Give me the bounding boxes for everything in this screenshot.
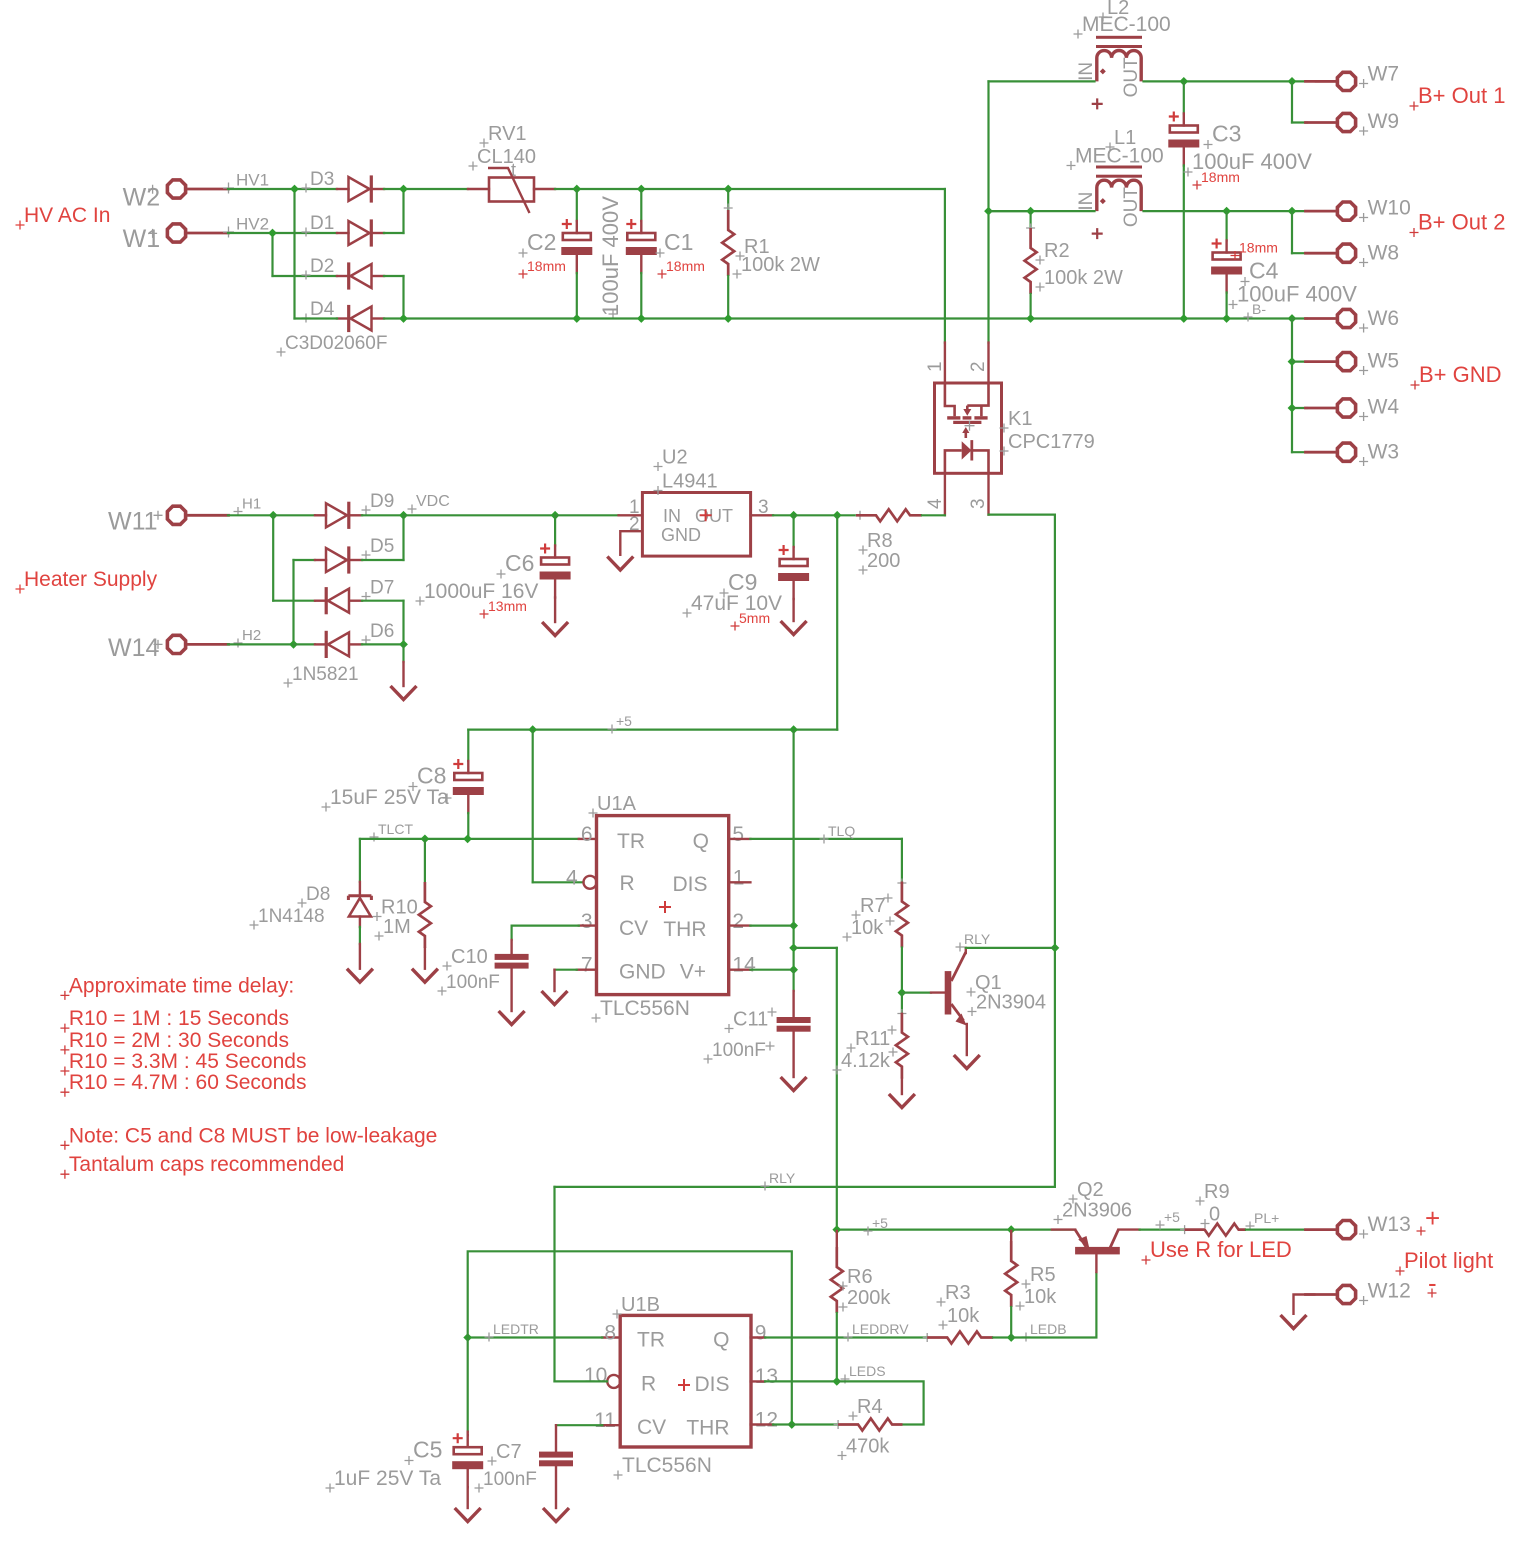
wire U1A pin3 CV	[579, 924, 597, 926]
svg-text:D8: D8	[306, 884, 330, 905]
junction +5	[789, 725, 798, 734]
junction B+2	[1026, 207, 1035, 216]
ground below D8	[347, 969, 373, 983]
resistor R10 1M	[424, 839, 426, 882]
svg-text:CV: CV	[637, 1416, 666, 1439]
junction B+2	[1288, 207, 1297, 216]
wire rail C2 to C1	[577, 188, 642, 190]
svg-text:W11: W11	[108, 508, 158, 536]
wire D7 out down	[362, 600, 404, 602]
wire K1 pin4 down	[944, 473, 946, 515]
wire TLCT down to D8	[359, 839, 361, 882]
svg-text:14: 14	[732, 954, 756, 977]
junction +5	[789, 965, 798, 974]
ground below C11	[781, 1077, 807, 1091]
wire U1A pin6 stub	[579, 838, 597, 840]
wire R8 to K1 pin4	[922, 514, 945, 516]
svg-text:18mm: 18mm	[1239, 240, 1278, 256]
wire U1A pin5 Q stub	[729, 838, 751, 840]
pad W3	[1337, 443, 1355, 461]
diode D1	[337, 232, 349, 234]
wire W8 stub	[1292, 252, 1307, 254]
svg-text:1N5821: 1N5821	[292, 664, 359, 685]
wire to heater ground	[402, 644, 404, 662]
svg-text:+5: +5	[616, 713, 632, 729]
svg-text:RLY: RLY	[964, 931, 991, 947]
svg-text:0: 0	[1209, 1204, 1220, 1226]
svg-text:B-: B-	[1252, 301, 1266, 317]
junction HVDC	[399, 185, 408, 194]
pad W7	[1337, 72, 1355, 90]
svg-text:100uF 400V: 100uF 400V	[598, 196, 623, 316]
wire +5 down right branch	[792, 730, 794, 970]
wire U1A pin1 DIS stub	[729, 881, 751, 883]
svg-text:C8: C8	[417, 763, 446, 789]
svg-text:W8: W8	[1368, 242, 1400, 265]
U1A reset bubble pin4	[584, 876, 597, 889]
wire D1 out up to rail	[402, 189, 404, 233]
wire L2 out to C3	[1144, 80, 1184, 82]
U1B reset bubble pin10	[607, 1375, 620, 1388]
wire rectified rail to RV1	[404, 188, 469, 190]
resistor R6 200k	[836, 1231, 838, 1250]
wire U1A pin7 GND	[577, 969, 597, 971]
svg-text:2N3906: 2N3906	[1062, 1200, 1132, 1222]
junction B-	[1026, 314, 1035, 323]
svg-text:U1A: U1A	[597, 793, 637, 815]
svg-text:6: 6	[581, 823, 593, 846]
ground below W12	[1281, 1315, 1307, 1329]
svg-text:C11: C11	[733, 1009, 768, 1031]
svg-text:MEC-100: MEC-100	[1082, 13, 1171, 36]
svg-text:LEDTR: LEDTR	[493, 1321, 539, 1337]
svg-text:C7: C7	[496, 1441, 522, 1463]
svg-text:TR: TR	[617, 830, 645, 853]
junction B-	[724, 314, 733, 323]
pad W8	[1337, 244, 1355, 262]
junction B-	[1222, 314, 1231, 323]
wire LEDTR loop	[468, 1251, 792, 1424]
junction HV2	[268, 229, 277, 238]
junction LEDTR	[463, 1333, 472, 1342]
junction LEDB	[1007, 1333, 1016, 1342]
varistor RV1 CL140 (inrush limiter)	[468, 188, 489, 190]
capacitor C11 100nF	[792, 970, 794, 991]
capacitor C1 100uF 400V	[640, 189, 642, 221]
svg-text:18mm: 18mm	[527, 258, 566, 274]
svg-text:1: 1	[733, 867, 745, 890]
svg-text:R4: R4	[857, 1396, 883, 1418]
pad W6	[1337, 309, 1355, 327]
wire U1B pin8 stub	[602, 1336, 620, 1338]
wire U1B pin13 DIS stub	[751, 1380, 766, 1382]
junction B-	[1179, 314, 1188, 323]
svg-text:C4: C4	[1249, 258, 1279, 284]
diode D9	[315, 514, 326, 516]
svg-text:t: t	[511, 160, 516, 180]
wire L1 in	[989, 210, 1095, 212]
wire U1B pin12 THR stub	[751, 1423, 773, 1425]
resistor R1 100k 2W	[727, 189, 729, 210]
junction HVDC	[724, 185, 733, 194]
junction B+1	[1179, 77, 1188, 86]
junction B-	[1288, 314, 1297, 323]
wire B+1 down to W9	[1291, 81, 1293, 122]
svg-text:18mm: 18mm	[666, 258, 705, 274]
svg-text:5: 5	[732, 823, 744, 846]
ground below C7	[543, 1508, 569, 1522]
wire H1 vertical to D7	[272, 515, 274, 600]
wire HV2 to D2	[273, 275, 338, 277]
junction heater-gnd	[399, 640, 408, 649]
wire K1 pin3 down	[987, 473, 989, 514]
svg-text:11: 11	[594, 1409, 616, 1432]
wire H1 to junction	[228, 514, 273, 516]
wire D5 row	[294, 559, 316, 561]
ground U1A pin7	[542, 991, 568, 1005]
wire RLY from pin3	[989, 513, 1055, 515]
capacitor C2 100uF 400V	[576, 189, 578, 221]
ground below C9	[781, 621, 807, 635]
resistor R4 470k	[834, 1420, 843, 1429]
wire L2 in	[989, 80, 1095, 82]
wire D3 out to rail	[384, 188, 404, 190]
junction +5	[833, 511, 842, 520]
svg-text:TR: TR	[637, 1329, 665, 1352]
wire W6 stub	[1292, 317, 1307, 319]
wire +5 down to C8	[467, 730, 469, 761]
svg-text:Use R for LED: Use R for LED	[1150, 1237, 1292, 1262]
wire U1A pin14 V+ stub	[729, 969, 751, 971]
svg-text:D9: D9	[370, 491, 394, 512]
wire THR to R4	[792, 1423, 838, 1425]
wire H2 to D6	[294, 643, 316, 645]
junction VDC	[551, 511, 560, 520]
capacitor C7 100nF	[555, 1425, 557, 1451]
svg-text:R7: R7	[860, 895, 886, 917]
wire HV1 vertical to D4 row	[293, 189, 295, 319]
ground U2 pin2	[607, 557, 633, 571]
junction B+2	[1222, 207, 1231, 216]
resistor R5 10k	[1010, 1231, 1012, 1244]
pad W5	[1337, 353, 1355, 371]
wire HV2 vertical to D2 row	[271, 233, 273, 276]
svg-text:R8: R8	[867, 530, 893, 552]
svg-text:W5: W5	[1368, 350, 1400, 373]
transistor Q1 2N3904	[902, 991, 931, 993]
diode D6	[315, 643, 326, 645]
wire W12 to ground	[1294, 1295, 1316, 1316]
wire U1B pin9 Q stub	[751, 1336, 766, 1338]
pad W2 (HV AC input)	[167, 180, 185, 198]
svg-text:10k: 10k	[947, 1305, 980, 1327]
svg-text:D2: D2	[310, 256, 334, 277]
svg-text:Tantalum caps recommended: Tantalum caps recommended	[69, 1153, 344, 1176]
svg-text:200k: 200k	[847, 1287, 891, 1309]
svg-text:IN: IN	[1076, 62, 1097, 81]
svg-text:13: 13	[755, 1365, 778, 1388]
resistor R2 100k 2W	[1029, 211, 1031, 228]
capacitor C6 1000uF 16V	[554, 515, 556, 545]
svg-text:W12: W12	[1368, 1280, 1411, 1303]
svg-text:D3: D3	[310, 169, 334, 190]
svg-text:TLC556N: TLC556N	[622, 1454, 712, 1477]
wire choke IN vertical	[987, 81, 989, 342]
ground below R11	[889, 1094, 915, 1108]
svg-text:V+: V+	[680, 961, 706, 984]
pad W12	[1337, 1285, 1355, 1303]
svg-text:GND: GND	[661, 525, 701, 545]
svg-text:B+ Out 2: B+ Out 2	[1418, 210, 1505, 235]
svg-text:GND: GND	[619, 961, 666, 984]
diode D2	[337, 275, 349, 277]
wire H1 to D9	[273, 514, 315, 516]
svg-text:TLC556N: TLC556N	[600, 997, 690, 1020]
svg-text:+5: +5	[872, 1215, 888, 1231]
wire RLY long vertical	[1054, 515, 1056, 1187]
svg-text:R: R	[620, 872, 635, 895]
svg-text:B+ GND: B+ GND	[1419, 362, 1502, 387]
svg-text:1uF 25V Ta: 1uF 25V Ta	[334, 1467, 441, 1490]
svg-text:R9: R9	[1204, 1181, 1230, 1203]
diode D3	[337, 188, 349, 190]
regulator U2 L4941	[642, 493, 750, 557]
capacitor C5 1uF 25V Ta	[467, 1338, 469, 1432]
capacitor C4 100uF 400V	[1225, 211, 1227, 240]
wire +5 to R8	[794, 514, 856, 516]
wire RLY from Q1 collector	[966, 947, 1055, 949]
svg-text:W7: W7	[1368, 63, 1400, 86]
svg-text:2N3904: 2N3904	[976, 992, 1046, 1014]
junction B-	[399, 314, 408, 323]
pad W1 (HV AC input)	[167, 224, 185, 242]
wire D4 out to B- rail	[384, 317, 404, 319]
svg-text:HV1: HV1	[236, 170, 269, 189]
resistor R3 10k	[923, 1333, 932, 1342]
ground below C10	[499, 1011, 525, 1025]
capacitor C8 15uF 25V	[467, 761, 469, 773]
svg-text:4: 4	[925, 498, 946, 509]
svg-text:R10 = 2M : 30 Seconds: R10 = 2M : 30 Seconds	[69, 1029, 289, 1052]
pad W11	[167, 506, 185, 524]
wire R6 to LEDS	[836, 1313, 838, 1381]
wire PL+ to W13	[1246, 1228, 1307, 1230]
junction LEDTR	[787, 1420, 796, 1429]
svg-text:W10: W10	[1368, 197, 1411, 220]
diode D7	[273, 600, 315, 602]
svg-text:100k 2W: 100k 2W	[741, 254, 820, 276]
wire LEDB to Q2 base	[1011, 1272, 1096, 1338]
wire HV1 W2 to bridge	[228, 188, 295, 190]
relay K1 CPC1779	[935, 383, 1002, 473]
wire B+2 down to W8	[1291, 211, 1293, 253]
svg-text:U1B: U1B	[621, 1294, 660, 1316]
inductor L2 MEC-100	[1096, 36, 1142, 39]
svg-text:VDC: VDC	[416, 493, 450, 510]
junction HV1	[290, 185, 299, 194]
svg-text:18mm: 18mm	[1201, 169, 1240, 185]
svg-text:2: 2	[629, 514, 640, 535]
svg-text:5mm: 5mm	[739, 610, 770, 626]
svg-text:1: 1	[925, 361, 946, 372]
svg-text:W13: W13	[1368, 1213, 1411, 1236]
junction TLCT	[463, 835, 472, 844]
wire W5 stub	[1292, 361, 1307, 363]
wire W4 stub	[1292, 407, 1307, 409]
resistor R7 10k	[901, 839, 903, 882]
svg-text:CL140: CL140	[477, 146, 536, 168]
svg-text:C5: C5	[413, 1437, 442, 1463]
svg-text:C2: C2	[527, 229, 556, 255]
wire LEDTR	[468, 1336, 603, 1338]
wire VDC to C6	[404, 514, 556, 516]
junction +5	[1007, 1225, 1016, 1234]
wire TLQ	[750, 838, 902, 840]
svg-text:R10 = 3.3M : 45 Seconds: R10 = 3.3M : 45 Seconds	[69, 1050, 307, 1073]
wire B- rail	[295, 317, 338, 319]
svg-text:LEDB: LEDB	[1030, 1321, 1067, 1337]
svg-text:H1: H1	[242, 496, 261, 513]
svg-text:W14: W14	[108, 634, 160, 662]
svg-text:R2: R2	[1044, 240, 1070, 262]
wire D6 out	[362, 643, 404, 645]
svg-text:D5: D5	[370, 536, 394, 557]
junction B-	[1288, 404, 1297, 413]
svg-text:TLQ: TLQ	[828, 823, 855, 839]
wire LEDS row	[765, 1380, 837, 1382]
wire B+2 to W10	[1227, 210, 1307, 212]
wire +5 horizontal rail	[468, 728, 837, 730]
wire RLY to pin10	[555, 1380, 608, 1382]
capacitor C9 47uF 10V	[792, 515, 794, 547]
svg-text:W2: W2	[123, 184, 161, 212]
junction RLY	[1051, 944, 1060, 953]
svg-text:H2: H2	[242, 627, 261, 644]
pad W10	[1337, 202, 1355, 220]
svg-text:OUT: OUT	[1121, 57, 1142, 98]
junction +5	[789, 921, 798, 930]
wire D5 left vertical	[292, 560, 294, 644]
wire +5 vertical from R8 junction	[836, 515, 838, 729]
wire W3 stub	[1292, 451, 1307, 453]
svg-text:1N4148: 1N4148	[258, 906, 325, 927]
svg-text:10k: 10k	[851, 917, 884, 939]
ground below C5	[455, 1508, 481, 1522]
junction Q1-base	[898, 988, 907, 997]
svg-text:K1: K1	[1008, 408, 1032, 430]
svg-text:W3: W3	[1368, 441, 1400, 464]
svg-text:100k 2W: 100k 2W	[1044, 267, 1123, 289]
inductor L1 MEC-100	[1096, 166, 1142, 169]
svg-text:R10 = 1M : 15 Seconds: R10 = 1M : 15 Seconds	[69, 1007, 289, 1030]
wire RLY down-left vertical	[553, 1187, 555, 1382]
junction +5	[789, 944, 798, 953]
svg-text:R3: R3	[945, 1282, 971, 1304]
svg-text:HV AC In: HV AC In	[24, 204, 110, 227]
wire K1 pin1 feed	[944, 189, 946, 343]
junction chokes-in	[984, 207, 993, 216]
svg-text:R6: R6	[847, 1266, 873, 1288]
ground below C6	[542, 622, 568, 636]
transistor Q2 2N3906	[1075, 1247, 1120, 1255]
svg-text:THR: THR	[686, 1417, 729, 1440]
wire HV2 to D1	[273, 232, 338, 234]
svg-text:W1: W1	[123, 225, 161, 253]
svg-text:RLY: RLY	[769, 1170, 796, 1186]
ground below Q1	[954, 1055, 980, 1069]
svg-text:100nF: 100nF	[446, 972, 500, 993]
svg-text:PL+: PL+	[1254, 1210, 1279, 1226]
wire HV1 to D3	[295, 188, 338, 190]
wire B- down to gnd pads	[1291, 319, 1293, 453]
svg-text:Q: Q	[693, 830, 709, 853]
svg-text:Q: Q	[713, 1329, 729, 1352]
svg-text:100nF: 100nF	[483, 1469, 537, 1490]
svg-text:+5: +5	[1164, 1209, 1180, 1225]
wire U1A pin2 THR stub	[729, 924, 751, 926]
svg-text:R: R	[641, 1373, 656, 1396]
svg-text:200: 200	[867, 550, 900, 572]
svg-text:9: 9	[755, 1322, 767, 1345]
svg-text:CV: CV	[619, 917, 648, 940]
svg-text:13mm: 13mm	[488, 598, 527, 614]
svg-text:DIS: DIS	[694, 1373, 729, 1396]
junction TLCT	[421, 835, 430, 844]
svg-text:Heater Supply: Heater Supply	[24, 568, 158, 591]
svg-text:W9: W9	[1368, 110, 1400, 133]
svg-text:D6: D6	[370, 621, 394, 642]
wire L1 out	[1144, 210, 1227, 212]
wire U1B pin11 CV	[602, 1424, 620, 1426]
svg-text:LEDS: LEDS	[849, 1363, 886, 1379]
svg-text:3: 3	[968, 498, 989, 509]
svg-text:OUT: OUT	[1121, 187, 1142, 228]
svg-text:4.12k: 4.12k	[841, 1050, 891, 1072]
wire rail RV1 to C2	[555, 188, 577, 190]
svg-text:100nF: 100nF	[712, 1040, 766, 1061]
svg-text:C6: C6	[505, 550, 534, 576]
wire +5 to R9	[1140, 1228, 1185, 1230]
wire W9 stub	[1292, 121, 1307, 123]
svg-text:Q2: Q2	[1077, 1179, 1104, 1201]
svg-text:Approximate time delay:: Approximate time delay:	[69, 974, 294, 997]
svg-text:4: 4	[566, 867, 578, 890]
svg-text:U2: U2	[662, 447, 688, 469]
svg-text:10k: 10k	[1024, 1286, 1057, 1308]
wire rail C1 to R1	[641, 188, 728, 190]
junction H1	[269, 511, 278, 520]
svg-text:+: +	[1425, 1203, 1440, 1233]
junction B+1	[1288, 77, 1297, 86]
wire L1 row R2	[989, 210, 1031, 212]
svg-text:IN: IN	[1076, 192, 1097, 211]
wire VDC from D9	[362, 514, 404, 516]
svg-text:L4941: L4941	[662, 471, 718, 493]
svg-text:8: 8	[604, 1322, 616, 1345]
resistor R8 200	[856, 511, 865, 520]
svg-text:CPC1779: CPC1779	[1008, 431, 1095, 453]
wire LEDS to R4 right	[837, 1381, 924, 1424]
wire D2 out down to B-	[402, 276, 404, 319]
svg-text:Pilot light: Pilot light	[1404, 1248, 1493, 1273]
pad W9	[1337, 113, 1355, 131]
pad W4	[1337, 399, 1355, 417]
pad W14	[167, 635, 185, 653]
svg-text:DIS: DIS	[672, 873, 707, 896]
svg-text:R10 = 4.7M : 60 Seconds: R10 = 4.7M : 60 Seconds	[69, 1071, 307, 1094]
wire TLCT row	[360, 838, 579, 840]
svg-text:1M: 1M	[383, 916, 411, 938]
